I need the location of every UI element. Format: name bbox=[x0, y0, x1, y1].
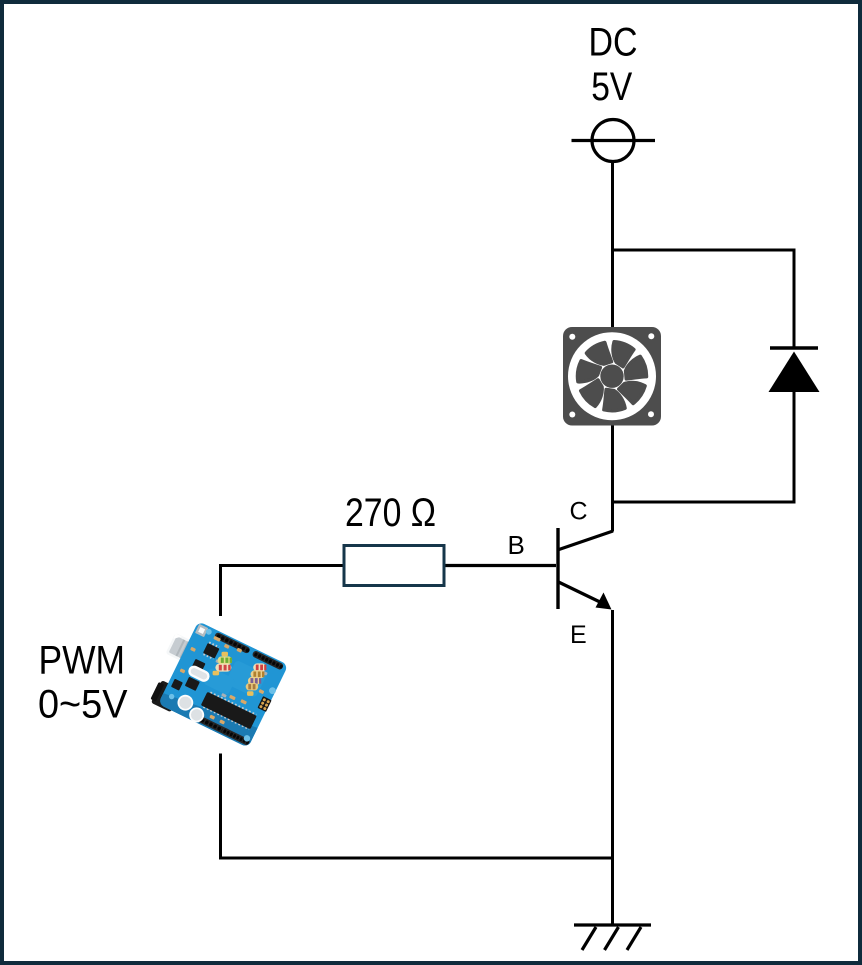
svg-text:5V: 5V bbox=[591, 65, 632, 109]
svg-text:0~5V: 0~5V bbox=[38, 683, 128, 727]
svg-text:270 Ω: 270 Ω bbox=[345, 491, 436, 535]
svg-text:E: E bbox=[570, 621, 587, 649]
svg-text:DC: DC bbox=[589, 21, 638, 65]
svg-text:C: C bbox=[570, 498, 588, 526]
svg-text:B: B bbox=[508, 530, 525, 560]
svg-text:PWM: PWM bbox=[39, 638, 126, 682]
